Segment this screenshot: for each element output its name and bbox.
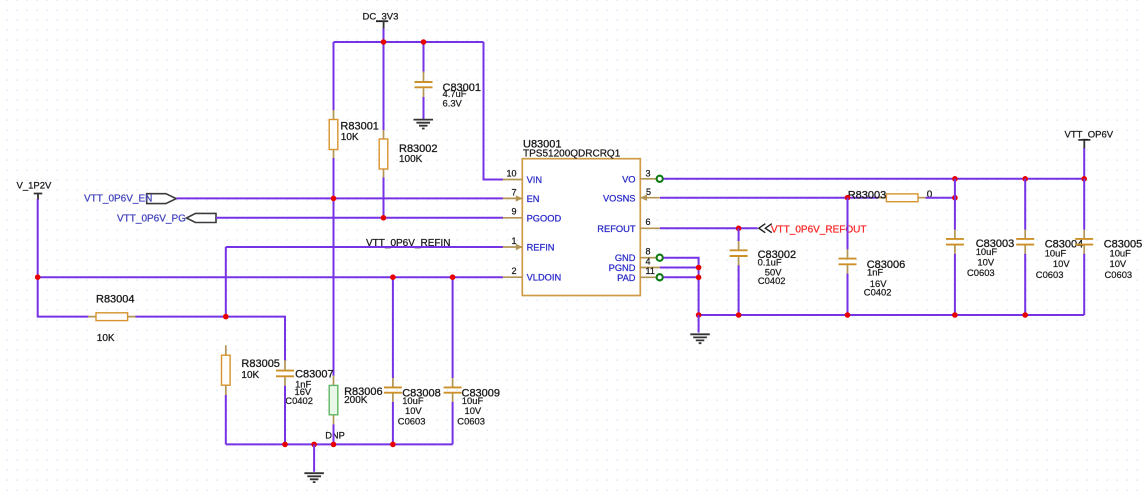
svg-text:R83003: R83003 xyxy=(848,190,887,202)
wire C83001 top lead xyxy=(423,42,425,73)
svg-text:VTT_0P6V_PG: VTT_0P6V_PG xyxy=(117,214,186,225)
ground for C83001 xyxy=(414,120,434,129)
capacitor C83002 xyxy=(730,240,797,286)
pin 8 GND xyxy=(615,247,656,264)
resistor R83004 xyxy=(88,293,136,344)
wire PGND pin 4 xyxy=(660,267,699,269)
wire C83005 riser xyxy=(1083,179,1085,230)
svg-text:PAD: PAD xyxy=(617,273,636,283)
svg-text:1nF: 1nF xyxy=(867,267,883,278)
capacitor C83007 xyxy=(276,360,334,406)
capacitor C83005 xyxy=(1075,229,1142,280)
wire R83005 bottom xyxy=(225,395,227,444)
port VTT_0P6V_EN xyxy=(84,194,176,205)
wire bottom-left ground rail xyxy=(226,443,453,445)
junction V_1P2V / VLDOIN xyxy=(35,274,41,280)
wire R83002 bottom to PGOOD xyxy=(383,178,385,218)
svg-text:C0603: C0603 xyxy=(457,416,485,427)
wire R83004 out to C83007 corner xyxy=(136,317,286,361)
wire C83009 riser xyxy=(452,277,454,378)
resistor R83005 xyxy=(222,345,280,395)
wire DC_3V3 top rail xyxy=(334,41,484,43)
wire VOSNS net xyxy=(660,197,878,199)
wire GND pin 8 to rail xyxy=(663,258,698,315)
svg-text:10K: 10K xyxy=(341,132,359,143)
wire VTT_OP6V stem xyxy=(1083,148,1085,179)
power symbol V_1P2V xyxy=(17,181,53,201)
svg-text:R83001: R83001 xyxy=(340,121,379,133)
svg-text:6.3V: 6.3V xyxy=(443,98,463,109)
wire R83006 bottom xyxy=(333,424,335,444)
ground right xyxy=(690,334,710,343)
junction at DC_3V3 stem xyxy=(381,39,387,45)
pin 2 VLDOIN xyxy=(503,266,561,283)
svg-text:9: 9 xyxy=(511,207,516,217)
wire right ground rail xyxy=(699,314,1085,316)
junction EN / R83001 xyxy=(331,196,337,202)
wire C83008 riser xyxy=(392,277,394,378)
junction VTT_OP6V / VO rail xyxy=(1081,176,1087,182)
junction C83004 / rail xyxy=(1022,312,1028,318)
svg-text:10V: 10V xyxy=(1110,258,1127,269)
resistor R83006 (DNP) xyxy=(325,376,382,441)
wire REFOUT net xyxy=(660,227,758,229)
wire R83003 out xyxy=(926,197,955,199)
svg-text:7: 7 xyxy=(511,187,516,197)
junction C83002 / rail xyxy=(736,312,742,318)
svg-text:REFOUT: REFOUT xyxy=(597,224,636,234)
svg-text:10uF: 10uF xyxy=(1045,248,1067,259)
svg-text:200K: 200K xyxy=(344,395,368,406)
junction at C83001 riser xyxy=(421,39,427,45)
svg-text:2: 2 xyxy=(511,266,516,276)
pin 4 PGND xyxy=(609,256,660,273)
junction C83003 / VO rail xyxy=(952,176,958,182)
no-connect marker pin 8 xyxy=(657,255,663,261)
svg-text:VO: VO xyxy=(622,175,635,185)
capacitor C83008 xyxy=(384,377,441,427)
svg-text:R83004: R83004 xyxy=(96,293,135,305)
svg-text:6: 6 xyxy=(646,217,651,227)
svg-text:C0603: C0603 xyxy=(1105,269,1133,280)
svg-text:3: 3 xyxy=(646,168,651,178)
svg-text:C0402: C0402 xyxy=(758,275,786,286)
wire C83005 bottom xyxy=(1083,254,1085,315)
svg-text:C0402: C0402 xyxy=(864,287,892,298)
wire PAD pin 11 xyxy=(663,276,698,278)
wire DC_3V3 stem xyxy=(383,29,385,43)
wire REFIN net xyxy=(226,246,503,248)
svg-text:TPS51200QDRCRQ1: TPS51200QDRCRQ1 xyxy=(523,149,621,160)
junction R83003 / C83003 riser xyxy=(952,195,958,201)
wire VIN drop to pin 10 xyxy=(484,42,504,180)
svg-text:10: 10 xyxy=(506,168,516,178)
wire R83001 top riser xyxy=(333,42,335,111)
no-connect marker pin 11 xyxy=(657,274,663,280)
svg-text:10K: 10K xyxy=(97,333,115,344)
junction PGND xyxy=(696,265,702,271)
svg-text:10K: 10K xyxy=(241,370,259,381)
svg-text:EN: EN xyxy=(527,194,540,204)
IC U83001 TPS51200QDRCRQ1 xyxy=(522,139,640,296)
pin 6 REFOUT xyxy=(597,217,660,234)
junction REFOUT / C83002 xyxy=(736,226,742,232)
svg-text:V_1P2V: V_1P2V xyxy=(17,181,53,192)
svg-text:VLDOIN: VLDOIN xyxy=(527,273,562,283)
pin 9 PGOOD xyxy=(503,207,562,224)
junction GND drop / rail xyxy=(696,312,702,318)
capacitor C83006 xyxy=(839,248,906,297)
power symbol VTT_OP6V xyxy=(1065,130,1114,149)
ground bottom-left xyxy=(304,473,324,482)
wire PGOOD net xyxy=(216,217,503,219)
svg-text:GND: GND xyxy=(615,253,636,263)
wire REFIN riser xyxy=(225,247,227,317)
svg-text:8: 8 xyxy=(646,247,651,257)
power symbol DC_3V3 xyxy=(363,12,399,31)
junction C83008 / VLDOIN xyxy=(390,274,396,280)
no-connect marker pin 3 xyxy=(657,176,663,182)
svg-text:VTT_OP6V: VTT_OP6V xyxy=(1065,130,1114,141)
resistor R83001 xyxy=(329,110,379,159)
svg-text:VOSNS: VOSNS xyxy=(603,193,636,203)
junction C83004 / VO rail xyxy=(1022,176,1028,182)
wire ground stub bottom-left xyxy=(313,444,315,471)
pin 10 VIN xyxy=(503,168,542,185)
wire C83004 bottom xyxy=(1024,254,1026,315)
capacitor C83004 xyxy=(1016,229,1083,280)
svg-text:10V: 10V xyxy=(977,257,994,268)
wire V_1P2V drop xyxy=(38,199,89,317)
wire C83007 bottom xyxy=(284,386,286,445)
svg-text:100K: 100K xyxy=(399,154,423,165)
svg-text:PGND: PGND xyxy=(609,263,636,273)
pin 3 VO xyxy=(622,168,656,184)
wire R83001 bottom to R83006 xyxy=(333,158,335,376)
svg-text:C0402: C0402 xyxy=(285,395,313,406)
svg-text:4: 4 xyxy=(646,256,651,266)
pin 1 REFIN xyxy=(503,236,555,253)
capacitor C83001 xyxy=(415,72,482,109)
svg-text:R83005: R83005 xyxy=(241,358,280,370)
wire R83002 top riser xyxy=(383,42,385,131)
svg-text:VIN: VIN xyxy=(527,175,543,185)
node VTT_0P6V_REFOUT marker xyxy=(759,224,772,233)
junction VOSNS / C83006 xyxy=(845,195,851,201)
junction PAD xyxy=(696,275,702,281)
wire VLDOIN net xyxy=(38,276,503,278)
junction R83004 / REFIN riser xyxy=(223,314,229,320)
pin 7 EN xyxy=(503,187,540,204)
svg-text:10uF: 10uF xyxy=(976,246,998,257)
wire EN net xyxy=(177,197,504,199)
svg-text:C0603: C0603 xyxy=(967,267,995,278)
svg-text:1: 1 xyxy=(511,236,516,246)
svg-text:VTT_0P6V_REFOUT: VTT_0P6V_REFOUT xyxy=(771,225,867,236)
resistor R83003 xyxy=(848,189,933,201)
svg-text:5: 5 xyxy=(646,187,651,197)
svg-text:REFIN: REFIN xyxy=(527,243,555,253)
wire ground stub right xyxy=(698,315,700,333)
junction C83007 / rail xyxy=(282,442,288,448)
junction C83009 / VLDOIN xyxy=(450,274,456,280)
junction C83006 / rail xyxy=(845,312,851,318)
svg-text:10uF: 10uF xyxy=(1110,248,1132,259)
svg-text:C0603: C0603 xyxy=(1036,269,1064,280)
svg-text:0: 0 xyxy=(927,189,933,200)
junction PGOOD / R83002 xyxy=(381,215,387,221)
port VTT_0P6V_PG xyxy=(117,213,216,224)
svg-text:C0603: C0603 xyxy=(398,416,426,427)
wire C83009 bottom xyxy=(452,402,454,444)
wire C83006 riser xyxy=(847,198,849,250)
pin 5 VOSNS xyxy=(603,187,660,203)
wire C83003 bottom xyxy=(954,254,956,315)
wire VO rail xyxy=(663,178,1084,180)
capacitor C83003 xyxy=(946,229,1014,278)
svg-text:DC_3V3: DC_3V3 xyxy=(363,12,399,23)
wire C83008 bottom xyxy=(392,402,394,444)
resistor R83002 xyxy=(379,130,437,178)
wire C83004 riser xyxy=(1024,179,1026,230)
pin 11 PAD xyxy=(617,266,656,283)
capacitor C83009 xyxy=(444,377,500,427)
svg-text:10V: 10V xyxy=(1053,258,1070,269)
wire C83001 bottom lead xyxy=(423,97,425,120)
svg-text:11: 11 xyxy=(646,266,655,276)
wire C83003 riser xyxy=(954,179,956,230)
wire C83002 riser xyxy=(738,228,740,241)
svg-text:PGOOD: PGOOD xyxy=(527,213,562,223)
junction C83003 / rail xyxy=(952,312,958,318)
junction ground stub / rail xyxy=(311,442,317,448)
junction C83008 / rail xyxy=(390,442,396,448)
wire C83002 bottom xyxy=(738,265,740,315)
svg-text:VTT_0P6V_EN: VTT_0P6V_EN xyxy=(84,194,152,205)
svg-text:DNP: DNP xyxy=(325,431,345,441)
junction R83006 / rail xyxy=(331,442,337,448)
wire C83006 bottom xyxy=(847,274,849,315)
